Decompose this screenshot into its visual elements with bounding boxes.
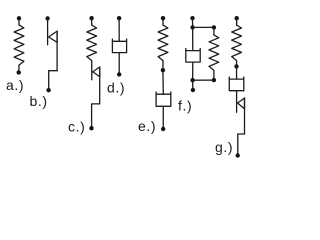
dashpot f: piston plate bbox=[186, 50, 200, 52]
node: bottom terminal e bbox=[161, 127, 165, 131]
svg-text:a.): a.) bbox=[6, 77, 24, 93]
node: top terminal d bbox=[117, 16, 121, 20]
wire bbox=[192, 80, 194, 90]
node: top terminal a bbox=[17, 16, 21, 20]
model d: dashpot (Newton element) bbox=[107, 16, 127, 96]
svg-text:e.): e.) bbox=[138, 118, 156, 134]
svg-text:b.): b.) bbox=[30, 93, 48, 109]
svg-text:g.): g.) bbox=[215, 139, 233, 155]
wire bbox=[192, 62, 194, 80]
friction wedge g (triangle) bbox=[238, 98, 245, 109]
wire (piston rod, left branch) bbox=[192, 27, 194, 50]
model c: spring in series with friction element bbox=[68, 16, 100, 135]
wire (left rod through friction wedge) bbox=[47, 18, 49, 44]
model f: dashpot parallel spring (Kelvin-Voigt) bbox=[178, 16, 219, 114]
node: top-right junction f bbox=[212, 25, 216, 29]
svg-text:d.): d.) bbox=[107, 80, 125, 96]
dashpot g: cylinder cup bbox=[229, 77, 244, 91]
wire bbox=[236, 61, 238, 67]
node: bottom-right junction f bbox=[212, 78, 216, 82]
wire (piston rod) bbox=[236, 66, 238, 79]
wire (rod through friction wedge) bbox=[91, 61, 93, 80]
wire bbox=[18, 18, 20, 25]
dashpot d: piston plate bbox=[112, 40, 126, 42]
node: top-left junction f bbox=[190, 25, 194, 29]
wire (piston rod) bbox=[162, 70, 164, 94]
node: bottom terminal b bbox=[46, 88, 50, 92]
node: bottom terminal f bbox=[191, 88, 195, 92]
model b: friction element (St.Venant) bbox=[30, 16, 58, 109]
dashpot d: cylinder cup bbox=[112, 39, 126, 53]
dashpot f: cylinder cup bbox=[186, 49, 200, 63]
spring f (zigzag, right branch) bbox=[209, 35, 219, 71]
wire (top bar) bbox=[193, 26, 214, 28]
node: top terminal c bbox=[89, 16, 93, 20]
spring a (zigzag) bbox=[14, 25, 24, 65]
dashpot e: cylinder cup bbox=[156, 92, 171, 106]
node: bottom-left junction f bbox=[190, 78, 194, 82]
dashpot e: piston plate bbox=[156, 93, 171, 95]
node: bottom terminal c bbox=[89, 126, 93, 130]
node: top terminal f bbox=[190, 16, 194, 20]
spring g (zigzag) bbox=[232, 25, 242, 61]
node: bottom terminal d bbox=[117, 72, 121, 76]
node: top terminal e bbox=[161, 16, 165, 20]
friction plate b (bar) bbox=[56, 31, 58, 71]
node: middle junction g bbox=[234, 64, 238, 68]
node: top terminal b bbox=[45, 16, 49, 20]
wire (right branch top) bbox=[213, 27, 215, 35]
wire bbox=[91, 18, 93, 25]
wire bbox=[236, 18, 238, 25]
friction plate g (bar) bbox=[244, 98, 246, 134]
node: middle junction e bbox=[161, 68, 165, 72]
friction wedge c (triangle) bbox=[93, 67, 100, 77]
wire (jog) bbox=[92, 104, 100, 128]
wire bbox=[162, 61, 164, 71]
wire (jog) bbox=[49, 71, 57, 91]
svg-text:f.): f.) bbox=[178, 98, 192, 114]
model a: spring (Hooke element) bbox=[6, 16, 24, 93]
wire (bottom bar) bbox=[193, 79, 214, 81]
wire bbox=[192, 18, 194, 27]
node: bottom terminal a bbox=[17, 70, 21, 74]
wire bbox=[18, 65, 20, 72]
wire (piston rod) bbox=[118, 18, 120, 41]
wire bbox=[162, 18, 164, 25]
wire bbox=[118, 53, 120, 75]
wire (jog) bbox=[238, 134, 245, 156]
model g: spring, dashpot and friction element in series bbox=[215, 16, 245, 158]
model e: spring in series with dashpot (Maxwell) bbox=[138, 16, 171, 134]
friction plate c (bar) bbox=[99, 67, 101, 104]
wire bbox=[213, 70, 215, 80]
wire (rod through friction wedge) bbox=[236, 91, 238, 113]
svg-text:c.): c.) bbox=[68, 119, 85, 135]
node: top terminal g bbox=[235, 16, 239, 20]
dashpot g: piston plate bbox=[229, 78, 244, 80]
spring e (zigzag) bbox=[158, 25, 168, 61]
wire bbox=[162, 106, 164, 129]
friction wedge b (triangle) bbox=[49, 31, 58, 42]
spring c (zigzag) bbox=[87, 25, 97, 61]
node: bottom terminal g bbox=[236, 153, 240, 157]
